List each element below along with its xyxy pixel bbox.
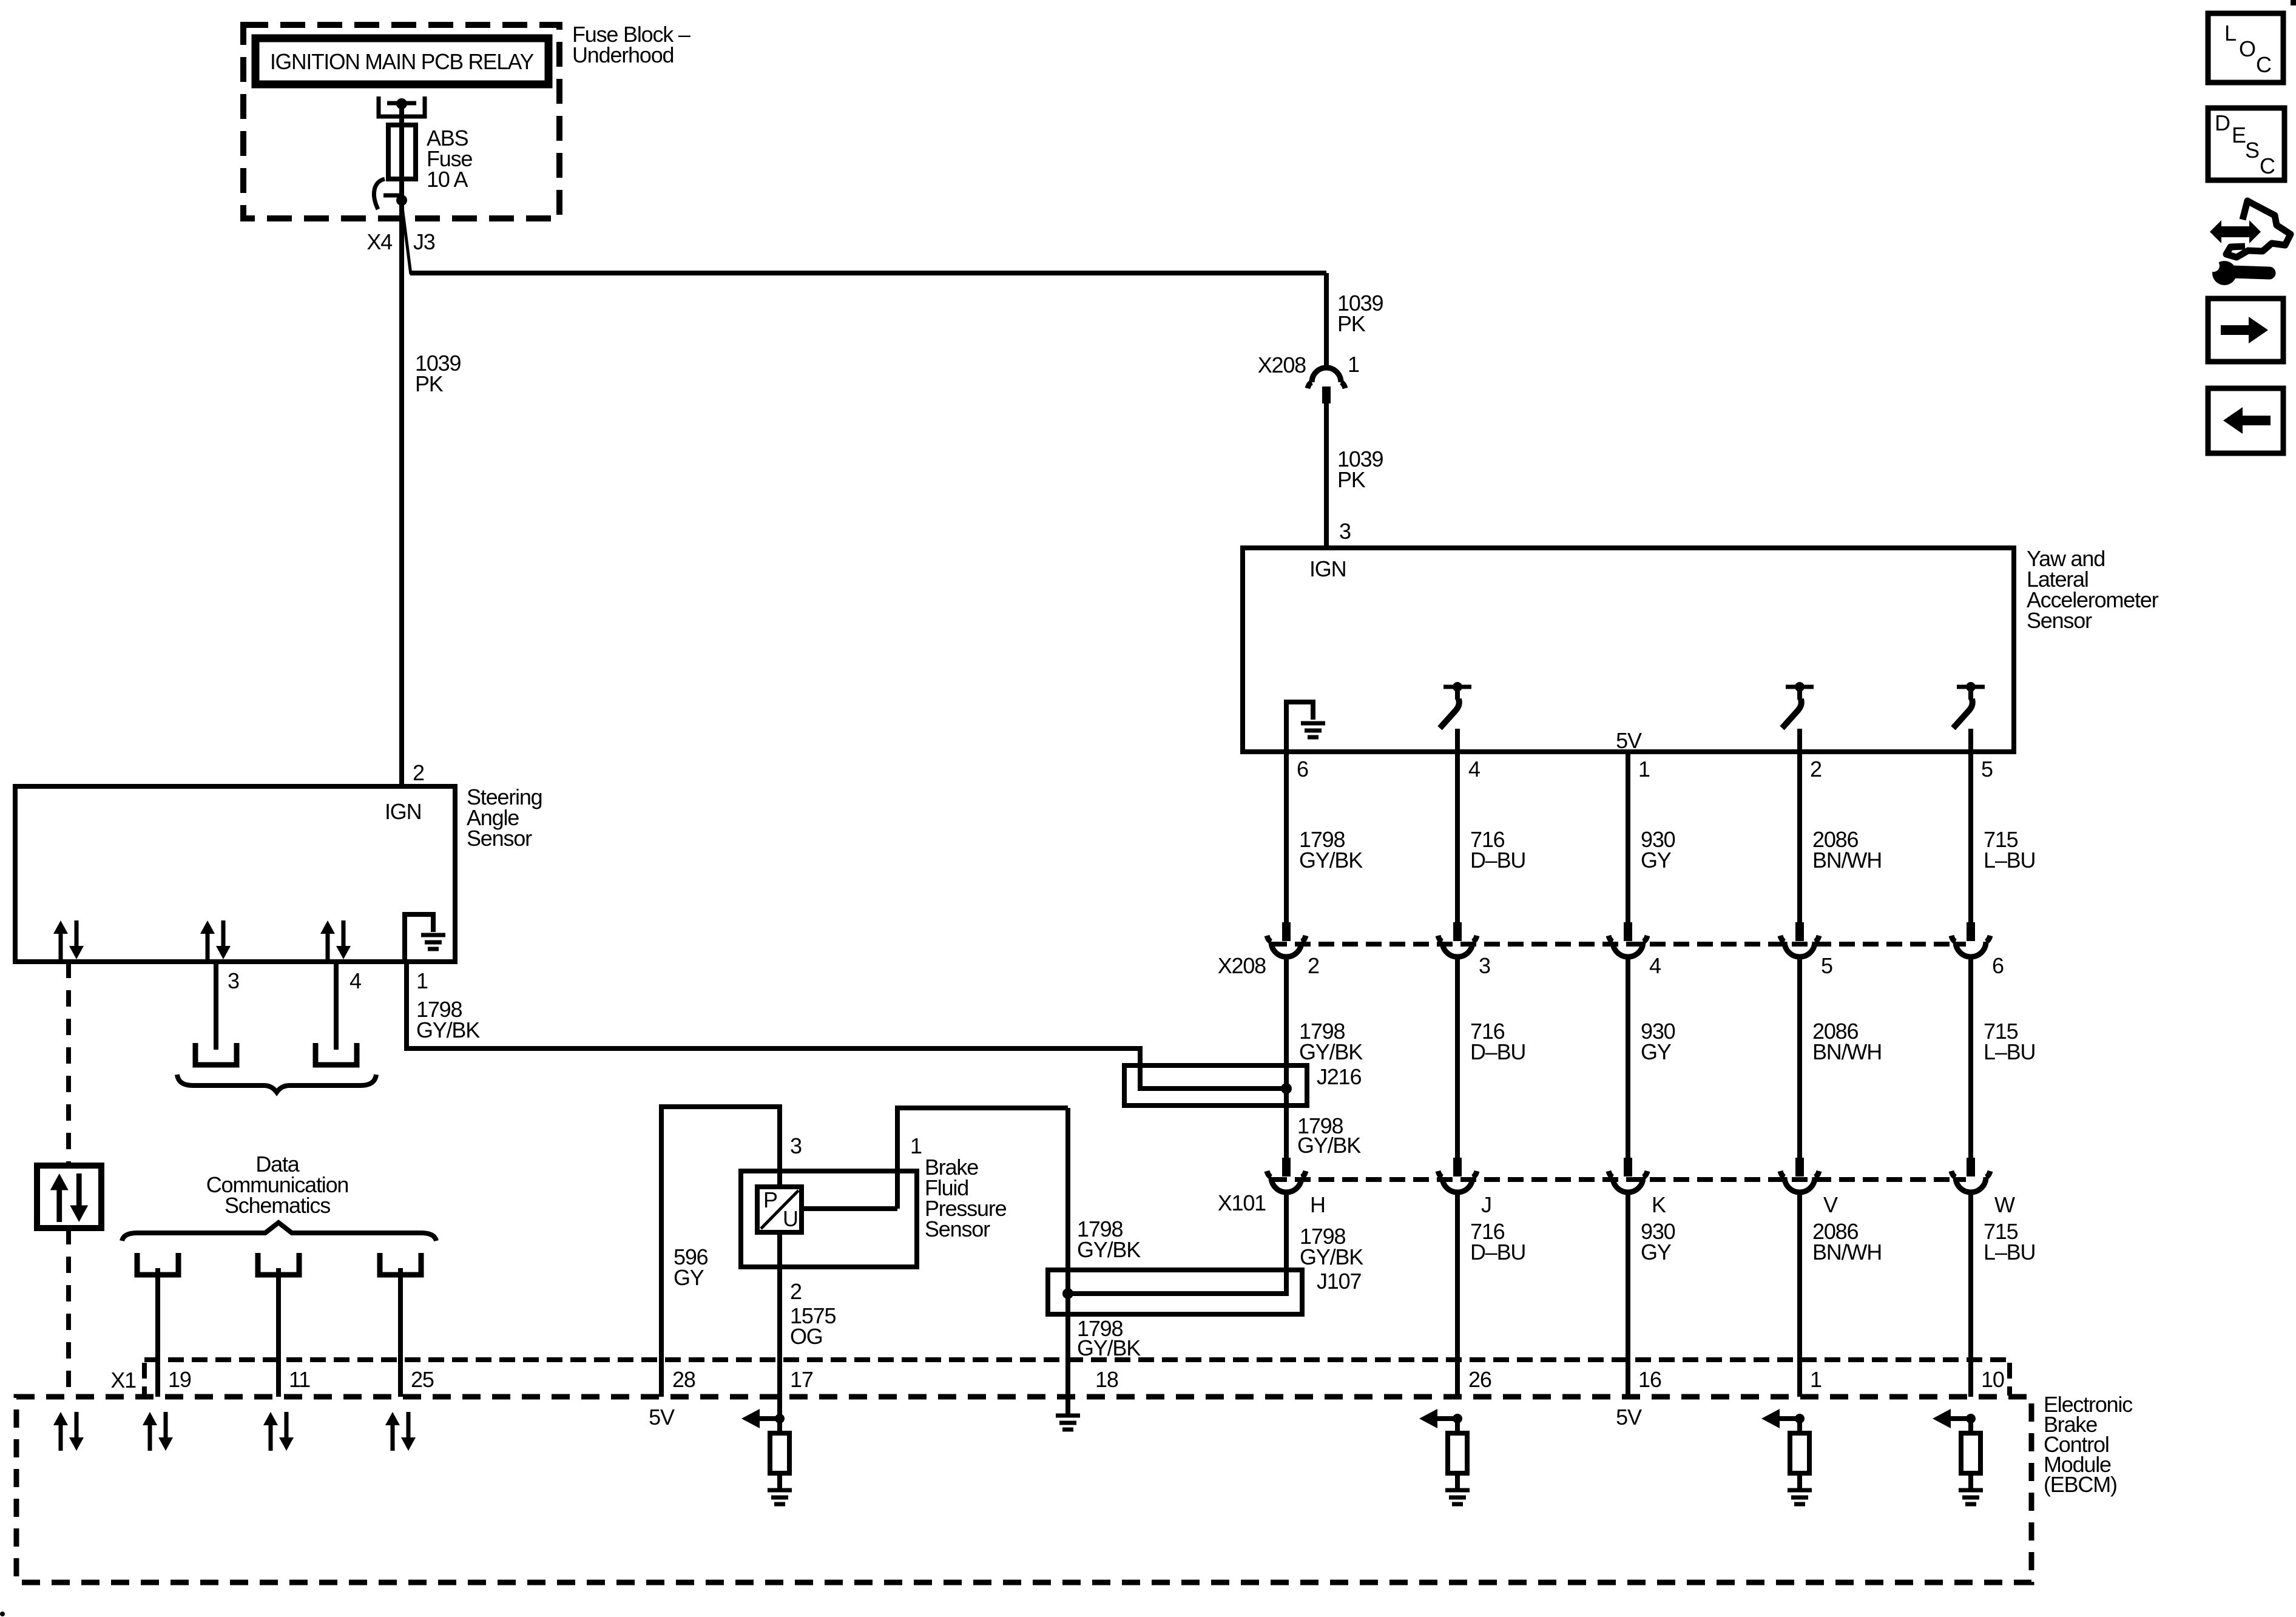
svg-text:Sensor: Sensor (2027, 608, 2092, 633)
svg-text:GY: GY (1641, 1039, 1672, 1064)
svg-text:J3: J3 (413, 229, 435, 254)
fuse F: ABS Fuse 10 A (388, 125, 416, 200)
pull-up resistor (EBCM pin 1) (1790, 1419, 1809, 1473)
wire label 1039 PK (left vertical) (415, 351, 461, 396)
wire 1039 PK main vertical to steering sensor pin 2 (399, 200, 404, 786)
wire inside sensor from P/U to pin 1 (802, 1206, 897, 1211)
wire label 715 (X208 to X101) (1984, 1019, 2035, 1064)
connector X101 pin H (1267, 1158, 1306, 1192)
svg-text:1: 1 (910, 1133, 922, 1158)
wire 715 from X208 to X101 (1968, 957, 1973, 1158)
EBCM dashed box (16, 1397, 2031, 1582)
connector X101 pin V (1780, 1158, 1819, 1192)
svg-text:18: 18 (1095, 1367, 1118, 1392)
wire label 716 (X101 to EBCM) (1470, 1219, 1525, 1264)
svg-text:S: S (2245, 138, 2259, 163)
wire label 930 (X208 to X101) (1641, 1019, 1675, 1064)
svg-text:4: 4 (349, 968, 361, 993)
svg-text:10: 10 (1981, 1367, 2004, 1392)
case ground symbol inside steering sensor (405, 914, 445, 962)
wire label 596 GY (674, 1244, 708, 1290)
wire 1039 PK to yaw sensor pin 3 (1324, 403, 1329, 548)
wire 1798 GY/BK from brake sensor pin 1 (897, 1108, 1068, 1209)
wire: slanted branch from J3 to horizontal run (402, 203, 411, 274)
wire label 2086 (yaw to X208) (1812, 827, 1882, 873)
svg-text:D–BU: D–BU (1470, 1039, 1525, 1064)
svg-text:5V: 5V (1616, 1405, 1642, 1430)
wire 596 GY from brake sensor pin 3 branch to EBCM pin 28 (661, 1107, 780, 1397)
svg-text:Underhood: Underhood (572, 42, 674, 67)
svg-text:5V: 5V (1616, 728, 1642, 753)
node J3 junction dot (396, 195, 407, 206)
icon: location (LOC) (2208, 13, 2283, 83)
svg-text:25: 25 (411, 1367, 434, 1392)
wire label 1798 GY/BK (X101 H to J107) (1300, 1224, 1363, 1269)
component label: Brake Fluid Pressure Sensor (925, 1155, 1007, 1241)
component label: Electronic Brake Control Module (EBCM) (2044, 1392, 2133, 1497)
wire 715 from yaw pin 5 to X208 (1968, 752, 1973, 922)
splice J107 junction dot (1062, 1288, 1073, 1299)
svg-text:5V: 5V (649, 1405, 675, 1430)
bidirectional data arrows (steering, right) (320, 920, 351, 959)
svg-text:K: K (1652, 1192, 1666, 1217)
svg-text:3: 3 (1339, 519, 1351, 544)
pull-up resistor (EBCM pin 17) (770, 1419, 789, 1473)
svg-text:5: 5 (1821, 953, 1832, 978)
svg-text:OG: OG (790, 1324, 823, 1349)
svg-text:GY/BK: GY/BK (1297, 1133, 1361, 1158)
svg-text:GY/BK: GY/BK (1077, 1237, 1141, 1262)
wire label 1798 GY/BK (above J107) (1077, 1217, 1141, 1262)
svg-text:V: V (1823, 1192, 1838, 1217)
icon: next (right arrow) (2208, 299, 2283, 362)
svg-text:C: C (2256, 52, 2271, 77)
junction dot (EBCM pin 10) (1966, 1414, 1976, 1423)
svg-text:GY: GY (1641, 848, 1672, 873)
wire label 716 (yaw to X208) (1470, 827, 1525, 873)
svg-text:IGNITION MAIN PCB RELAY: IGNITION MAIN PCB RELAY (270, 49, 534, 74)
shield termination (data wire to pin 11) (258, 1253, 299, 1275)
bidirectional data arrows (EBCM pin 19) (143, 1412, 173, 1451)
wire to EBCM pin 25 (398, 1268, 403, 1397)
svg-text:X1: X1 (110, 1368, 136, 1393)
svg-text:4: 4 (1468, 757, 1480, 781)
switch symbol inside yaw sensor (pin 4) (1440, 682, 1471, 752)
connector X208 pin 4 (1609, 922, 1647, 957)
ground symbol (EBCM pin 17) (768, 1473, 792, 1507)
svg-text:3: 3 (790, 1133, 802, 1158)
svg-text:6: 6 (1297, 757, 1308, 781)
svg-text:17: 17 (790, 1367, 813, 1392)
wire label 1039 PK (below X208 pin 1) (1337, 447, 1383, 492)
svg-text:GY/BK: GY/BK (1077, 1335, 1141, 1360)
svg-text:IGN: IGN (1309, 556, 1346, 581)
wire 930 from X208 to X101 (1626, 957, 1630, 1158)
pull-up resistor (EBCM pin 10) (1961, 1419, 1980, 1473)
data link connector box with arrows (37, 1166, 101, 1228)
label: Data Communication Schematics (206, 1152, 349, 1218)
svg-text:L–BU: L–BU (1984, 1039, 2035, 1064)
fuse value label: ABS Fuse 10 A (427, 126, 472, 192)
svg-text:D: D (2215, 110, 2230, 135)
signal arrow (EBCM pin 17) (741, 1409, 780, 1428)
bidirectional data arrows (EBCM pin 25) (385, 1412, 416, 1451)
connector X208 pin 2 (1267, 922, 1306, 957)
svg-text:IGN: IGN (385, 799, 421, 824)
svg-text:11: 11 (289, 1367, 310, 1392)
yaw and lateral accelerometer sensor box (1243, 548, 2014, 752)
svg-text:GY: GY (674, 1265, 704, 1290)
brace grouping pins 3 and 4 (177, 1075, 376, 1092)
connector X208 pin 3 (1438, 922, 1477, 957)
connector X101 pin K (1609, 1158, 1647, 1192)
svg-text:2: 2 (1810, 757, 1822, 781)
signal arrow (EBCM pin 10) (1933, 1409, 1971, 1428)
wire label 1575 OG (790, 1303, 836, 1349)
svg-text:2: 2 (790, 1279, 802, 1304)
wire 1575 OG from brake sensor pin 2 to EBCM pin 17 (777, 1232, 782, 1419)
bidirectional data arrows (EBCM data wire) (53, 1412, 84, 1451)
svg-text:10 A: 10 A (427, 167, 468, 192)
bidirectional data arrows (steering, left) (53, 920, 84, 959)
wire label 716 (X208 to X101) (1470, 1019, 1525, 1064)
splice J107 box (1048, 1270, 1302, 1314)
svg-text:C: C (2260, 154, 2275, 178)
svg-text:W: W (1994, 1192, 2015, 1217)
connector X208 pin 5 (1780, 922, 1819, 957)
wire steering pin 3 stub (214, 962, 218, 1050)
junction dot (EBCM pin 1) (1795, 1414, 1805, 1423)
bidirectional data arrows (EBCM pin 11) (263, 1412, 294, 1451)
pull-up resistor (EBCM pin 26) (1448, 1419, 1467, 1473)
svg-text:J216: J216 (1317, 1064, 1361, 1089)
connector X101 dashed line (1271, 1177, 1966, 1182)
svg-text:16: 16 (1638, 1367, 1661, 1392)
svg-text:BN/WH: BN/WH (1812, 1039, 1882, 1064)
svg-text:PK: PK (1337, 311, 1366, 336)
svg-text:3: 3 (1479, 953, 1490, 978)
svg-text:X208: X208 (1258, 353, 1306, 377)
shield termination (data wire to pin 25) (380, 1253, 421, 1275)
wire 1039 PK horizontal run to X208 (410, 271, 1326, 275)
wire 930 from yaw pin 1 to X208 (1626, 752, 1630, 922)
icon: back (left arrow) (2208, 388, 2283, 453)
svg-text:1: 1 (416, 968, 428, 993)
fuse block - underhood dashed box (243, 25, 559, 218)
wire label 715 (X101 to EBCM) (1984, 1219, 2035, 1264)
wire 1798 from yaw pin 6 to X208 (1284, 752, 1289, 922)
ground symbol (EBCM pin 18) (1056, 1397, 1080, 1432)
wire 716 from yaw pin 4 to X208 (1455, 752, 1460, 922)
wire label 1798 GY/BK (steering pin 1) (416, 997, 480, 1042)
svg-text:GY/BK: GY/BK (1299, 1039, 1363, 1064)
case ground symbol inside yaw sensor (pin 6) (1286, 702, 1325, 752)
svg-text:GY/BK: GY/BK (1299, 848, 1363, 873)
svg-text:Sensor: Sensor (467, 826, 532, 851)
wire label 930 (yaw to X208) (1641, 827, 1675, 873)
svg-text:D–BU: D–BU (1470, 1240, 1525, 1264)
svg-text:2: 2 (1308, 953, 1319, 978)
svg-text:J107: J107 (1317, 1269, 1361, 1294)
svg-text:Sensor: Sensor (925, 1217, 990, 1241)
wire 715 from X101 W to EBCM pin 10 (1968, 1193, 1973, 1397)
brace for data communication schematics (122, 1223, 436, 1241)
svg-text:4: 4 (1649, 953, 1661, 978)
svg-text:GY: GY (1641, 1240, 1672, 1264)
connector X1 dashed line (144, 1360, 2010, 1396)
wire 2086 from yaw pin 2 to X208 (1797, 752, 1802, 922)
wire label 715 (yaw to X208) (1984, 827, 2035, 873)
wire label 1798 (X208 to X101) (1299, 1019, 1363, 1064)
svg-text:GY/BK: GY/BK (416, 1018, 480, 1042)
shield termination (data wire to pin 19) (137, 1253, 178, 1275)
wire 2086 from X208 to X101 (1797, 957, 1802, 1158)
svg-text:1: 1 (1638, 757, 1650, 781)
svg-text:3: 3 (228, 968, 239, 993)
fuse block label: Fuse Block - Underhood (572, 22, 690, 67)
component label: Steering Angle Sensor (467, 785, 542, 851)
wire to EBCM pin 19 (155, 1268, 160, 1397)
connector X208 pin 1 (female arc over male blade) (1308, 368, 1345, 403)
svg-text:6: 6 (1992, 953, 2004, 978)
svg-text:BN/WH: BN/WH (1812, 1240, 1882, 1264)
svg-text:P: P (763, 1187, 777, 1212)
svg-text:BN/WH: BN/WH (1812, 848, 1882, 873)
signal arrow (EBCM pin 26) (1419, 1409, 1457, 1428)
brake fluid pressure sensor box (741, 1171, 917, 1267)
splice J216 box (1124, 1065, 1307, 1106)
wire 1798 GY/BK from steering pin 1 (407, 962, 1286, 1089)
component label: Yaw and Lateral Accelerometer Sensor (2027, 546, 2159, 633)
connector X208 dashed line (1271, 942, 1966, 947)
svg-text:28: 28 (672, 1367, 695, 1392)
relay contact curl (374, 179, 402, 209)
svg-text:(EBCM): (EBCM) (2044, 1472, 2117, 1497)
signal arrow (EBCM pin 1) (1761, 1409, 1800, 1428)
wire label 1798 (yaw to X208) (1299, 827, 1363, 873)
shield termination (steering pin 4) (316, 1043, 357, 1065)
ground symbol (EBCM pin 10) (1959, 1473, 1983, 1507)
relay contact bar with terminal dot (387, 98, 416, 109)
svg-text:O: O (2239, 36, 2255, 61)
switch symbol inside yaw sensor (pin 2) (1782, 682, 1814, 752)
wire label 2086 (X101 to EBCM) (1812, 1219, 1882, 1264)
svg-text:L: L (2224, 21, 2236, 46)
bidirectional data arrows (steering, middle) (200, 920, 231, 959)
switch symbol inside yaw sensor (pin 5) (1953, 682, 1985, 752)
fuse holder clip (cup) (379, 96, 425, 116)
connector X101 pin W (1951, 1158, 1990, 1192)
wire 716 from X208 to X101 (1455, 957, 1460, 1158)
svg-text:D–BU: D–BU (1470, 848, 1525, 873)
wire 716 from X101 J to EBCM pin 26 (1455, 1193, 1460, 1397)
ground symbol (EBCM pin 1) (1788, 1473, 1812, 1507)
svg-text:5: 5 (1981, 757, 1993, 781)
svg-text:U: U (783, 1206, 798, 1231)
svg-text:2: 2 (413, 760, 424, 785)
wire to EBCM pin 11 (276, 1268, 281, 1397)
svg-text:PK: PK (415, 371, 444, 396)
page artifact mark top-right (2291, 0, 2296, 5)
svg-text:E: E (2232, 123, 2246, 147)
wire label 2086 (X208 to X101) (1812, 1019, 1882, 1064)
shield termination (steering pin 3) (195, 1043, 237, 1065)
dashed data wire to EBCM (66, 1228, 71, 1397)
splice J216 junction dot (1281, 1083, 1292, 1094)
wire 1798 from X208 to X101 (1284, 957, 1289, 1158)
pressure transducer P/U element (757, 1187, 802, 1232)
wire label 1798 GY/BK (below J216) (1297, 1113, 1361, 1158)
svg-text:L–BU: L–BU (1984, 848, 2035, 873)
dashed data wire from steering sensor (66, 962, 71, 1166)
wire label 930 (X101 to EBCM) (1641, 1219, 1675, 1264)
junction dot (EBCM pin 17) (775, 1414, 785, 1423)
svg-text:X101: X101 (1218, 1190, 1266, 1215)
steering angle sensor box (15, 786, 455, 962)
svg-text:1: 1 (1348, 352, 1359, 377)
junction dot (EBCM pin 26) (1453, 1414, 1462, 1423)
svg-text:PK: PK (1337, 467, 1366, 492)
wire 930 from X101 K to EBCM pin 16 (1626, 1193, 1630, 1397)
wire label 1798 GY/BK (below J107) (1077, 1316, 1141, 1360)
svg-text:L–BU: L–BU (1984, 1240, 2035, 1264)
wire from relay contact to fuse (399, 104, 404, 125)
svg-text:19: 19 (168, 1367, 191, 1392)
svg-text:J: J (1481, 1192, 1491, 1217)
page artifact dot bottom-left (0, 1612, 5, 1616)
wire 1798 GY/BK pin 18 vertical (1065, 1108, 1070, 1397)
relay K: IGNITION MAIN PCB RELAY title box (255, 38, 549, 84)
wire steering pin 4 stub (334, 962, 339, 1050)
wire label 1039 PK (above X208 pin 1) (1337, 291, 1383, 336)
wire 1039 PK drop to connector X208 pin 1 (1324, 273, 1329, 366)
svg-text:X4: X4 (366, 229, 392, 254)
connector X208 pin 6 (1951, 922, 1990, 957)
connector X101 pin J (1438, 1158, 1477, 1192)
icon: description (DESC) (2208, 108, 2284, 180)
icon: connector repair (arrow, terminal outline, wrench) (2207, 201, 2291, 285)
svg-text:X208: X208 (1218, 953, 1266, 978)
svg-text:GY/BK: GY/BK (1300, 1244, 1363, 1269)
wire 1798 GY/BK from X101 H to splice J107 (1068, 1193, 1286, 1294)
svg-text:H: H (1310, 1192, 1325, 1217)
svg-text:Schematics: Schematics (225, 1193, 330, 1218)
svg-text:1: 1 (1810, 1367, 1822, 1392)
wire 2086 from X101 V to EBCM pin 1 (1797, 1193, 1802, 1397)
ground symbol (EBCM pin 26) (1445, 1473, 1470, 1507)
svg-text:26: 26 (1468, 1367, 1491, 1392)
